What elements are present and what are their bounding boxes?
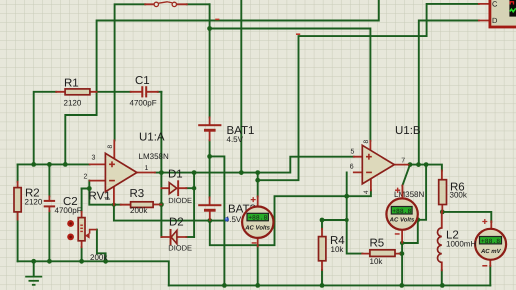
resistor R3 body xyxy=(131,202,154,208)
resistor R1 pin stubs xyxy=(56,91,96,93)
wire rail B bottom xyxy=(169,284,491,286)
node pin2 feedback xyxy=(87,186,92,191)
node C2 bottom on rail A xyxy=(47,259,52,264)
switch SW pin stubs xyxy=(145,3,187,5)
node ground on rail A xyxy=(31,259,36,264)
svg-text:10k: 10k xyxy=(331,245,345,254)
node meter1 bottom on rail B xyxy=(255,283,260,288)
wire switch right to BAT column xyxy=(187,3,210,5)
svg-text:DIODE: DIODE xyxy=(168,244,192,253)
node battery midpoint xyxy=(207,154,212,159)
op-amp U1:B body xyxy=(362,145,394,184)
node scope-C branch on meter1 column xyxy=(255,178,260,183)
svg-text:4: 4 xyxy=(104,196,111,200)
pot RV1 pin stubs xyxy=(81,212,83,247)
node D1 cathode xyxy=(192,186,196,190)
wire pin7 row xyxy=(409,165,442,171)
svg-text:LM358N: LM358N xyxy=(139,152,169,161)
svg-text:10k: 10k xyxy=(370,257,384,266)
node battery column / top row xyxy=(207,26,212,31)
wire meter1 bottom xyxy=(257,246,259,285)
wire long vertical x241 xyxy=(240,0,242,173)
node D1 cathode column on output row xyxy=(192,170,197,175)
svg-text:300k: 300k xyxy=(450,191,468,200)
node R4 branch on pin6 column xyxy=(345,218,349,222)
battery BAT2 plates xyxy=(198,204,221,212)
resistor R3 pin stubs xyxy=(121,204,162,206)
node R4 top xyxy=(320,218,325,223)
node long vertical on output row xyxy=(239,170,244,175)
node R4 bottom on rail B xyxy=(320,283,325,288)
meter2 stub overlay xyxy=(401,187,403,198)
node meter2 hook on pin7 row xyxy=(424,162,429,167)
capacitor C2 plates xyxy=(44,200,55,208)
labels: values xyxy=(25,99,477,267)
wire output row U1:A xyxy=(155,157,354,173)
battery BAT1 plates xyxy=(198,124,221,132)
wire R1 C1 row xyxy=(34,92,162,165)
unconnected red markers xyxy=(215,19,300,35)
resistor R6 body xyxy=(439,180,447,205)
oscilloscope (partial, top right) xyxy=(490,0,516,27)
svg-text:4.5V: 4.5V xyxy=(227,135,244,144)
node RV1 wiper on rail A xyxy=(103,259,108,264)
resistor R4 pin stubs xyxy=(321,229,323,270)
meter2 pin stubs xyxy=(401,186,403,243)
wire row y28.5 to U1:B top pin xyxy=(210,29,371,141)
wire D1 right to vertical xyxy=(186,173,194,237)
node meter1 column on output row xyxy=(255,170,260,175)
pot RV1 body xyxy=(78,218,85,241)
node C2 branch on pin3 rail xyxy=(47,162,52,167)
op-amp U1:B plus minus xyxy=(366,154,372,173)
meter1 pin stubs xyxy=(257,196,259,246)
wire D2 right xyxy=(186,236,194,238)
op-amp U1:B pin stubs: 5,6,8,4,out xyxy=(354,141,409,191)
capacitor C1 pin stubs xyxy=(131,91,158,93)
node BAT2 minus row xyxy=(207,218,212,223)
svg-text:U1:B: U1:B xyxy=(395,125,421,137)
wire ground stem xyxy=(33,261,35,276)
svg-text:8: 8 xyxy=(107,145,114,149)
labels: part references xyxy=(25,75,465,249)
resistor R4 body xyxy=(319,237,326,261)
wire pin6 branch down xyxy=(347,172,363,253)
wire R6 bottom row to meter3 xyxy=(442,212,491,222)
battery BAT1 pin stubs xyxy=(209,117,211,140)
wire bat mid to ground rail xyxy=(210,156,225,285)
resistor R2 body xyxy=(14,188,21,212)
node U1:A pin4 / R3 left xyxy=(112,203,116,207)
diode D1 pin stubs xyxy=(161,187,186,189)
svg-text:200k: 200k xyxy=(130,206,148,215)
node U1:B pin6 column / pin4 row xyxy=(344,194,349,199)
svg-text:6: 6 xyxy=(350,164,354,171)
wire rail A bottom left xyxy=(18,261,169,285)
svg-text:LM358N: LM358N xyxy=(394,190,424,199)
wire R4 bottom xyxy=(321,270,323,285)
svg-text:D1: D1 xyxy=(168,169,183,181)
wire diagonal to meter2 xyxy=(402,165,410,186)
svg-text:4700pF: 4700pF xyxy=(130,99,157,108)
node meter2 bottom / hook return xyxy=(400,241,404,245)
node R5 right / meter2 bottom xyxy=(399,251,404,256)
blue ball marker xyxy=(225,217,229,221)
node R3 right xyxy=(159,202,164,207)
meter1 AC Volts xyxy=(242,197,273,244)
pot RV1 red dots xyxy=(67,220,74,240)
capacitor C1 plates xyxy=(141,86,147,97)
svg-text:4700pF: 4700pF xyxy=(55,206,82,215)
node U1:A output xyxy=(159,170,164,175)
wire R4 top branch xyxy=(322,220,347,229)
svg-text:DIODE: DIODE xyxy=(168,196,192,205)
node R1 branch on pin3 rail xyxy=(31,162,36,167)
svg-text:8: 8 xyxy=(363,140,370,144)
svg-text:+88.8: +88.8 xyxy=(392,208,411,215)
svg-text:+88.8: +88.8 xyxy=(248,215,267,222)
battery BAT2 pin stubs xyxy=(209,197,211,219)
diode D1 xyxy=(169,180,179,196)
wire switch left vertical to U1:A pin8 xyxy=(115,4,146,140)
meter3 pin stubs xyxy=(490,221,491,266)
diode D2 xyxy=(170,229,177,245)
wire R2 branch xyxy=(17,164,19,261)
svg-text:1: 1 xyxy=(145,165,149,172)
svg-text:D2: D2 xyxy=(169,217,184,229)
node R1 loop on pin3 rail xyxy=(63,162,68,167)
wire meter2 bottom xyxy=(401,243,403,286)
svg-text:200k: 200k xyxy=(90,253,108,262)
wire meter3 bottom xyxy=(489,266,491,285)
svg-text:R5: R5 xyxy=(370,237,385,249)
inductor L2 coil xyxy=(437,228,441,262)
op-amp U1:A pin stubs: 3,2,8,4,out xyxy=(90,140,155,204)
svg-text:C1: C1 xyxy=(135,75,150,87)
wire row y20.5 xyxy=(97,0,379,92)
svg-text:4: 4 xyxy=(363,190,370,194)
svg-text:2120: 2120 xyxy=(25,198,43,207)
node RV1 bottom on rail A xyxy=(79,259,84,264)
svg-text:R3: R3 xyxy=(130,188,145,200)
wire pin2 feedback net xyxy=(82,181,121,205)
node meter2 diagonal on pin7 row xyxy=(408,162,413,167)
svg-text:5: 5 xyxy=(351,149,355,156)
wire L2 bottom xyxy=(441,270,443,285)
node meter2 column on rail B xyxy=(399,283,404,288)
wire meter1 top branch xyxy=(257,173,259,197)
wire R1 right loop xyxy=(65,92,96,165)
meter3 AC mV xyxy=(475,219,506,267)
node R6 bottom / L2 top xyxy=(440,210,445,215)
switch contacts xyxy=(154,2,176,7)
capacitor C2 pin stubs xyxy=(48,196,50,211)
svg-text:1000mH: 1000mH xyxy=(446,240,476,249)
wire pin4 down row y220.6 xyxy=(114,205,226,221)
node meter2 right hook xyxy=(415,217,420,222)
pot RV1 wiper arrow xyxy=(85,230,97,239)
svg-text:AC mV: AC mV xyxy=(480,248,502,255)
wire RV1 wiper route xyxy=(97,230,106,262)
wire bat2 bottom to U1:B pin4 row xyxy=(210,190,371,245)
diode D2 pin stubs xyxy=(161,236,186,238)
labels: pin numbers xyxy=(84,0,499,200)
wire C1 right down to output node xyxy=(160,92,162,237)
inductor L2 pin stubs xyxy=(441,212,443,270)
resistor R5 body xyxy=(370,250,395,257)
svg-text:2: 2 xyxy=(84,174,88,181)
wire R5 right to meter2 column xyxy=(400,253,402,255)
svg-text:2120: 2120 xyxy=(64,99,82,108)
node scope-D column on pin7 row xyxy=(416,162,421,167)
svg-text:R1: R1 xyxy=(64,78,79,90)
resistor R1 body xyxy=(65,89,90,95)
op-amp U1:A plus minus xyxy=(109,161,115,180)
meter2 AC Volts xyxy=(386,188,417,235)
op-amp U1:A body xyxy=(105,153,136,191)
ground symbol xyxy=(25,277,42,285)
svg-text:7: 7 xyxy=(401,157,405,164)
wire scope C net xyxy=(258,4,479,180)
wire battery column vertical xyxy=(209,4,211,197)
svg-text:D: D xyxy=(492,16,498,25)
svg-text:AC Volts: AC Volts xyxy=(389,217,415,224)
svg-text:3: 3 xyxy=(92,155,96,162)
svg-text:U1:A: U1:A xyxy=(139,132,165,144)
node battery-mid column on rail B xyxy=(222,283,227,288)
svg-text:+88.8: +88.8 xyxy=(481,238,500,245)
wire pin3 rail y164 xyxy=(18,163,90,165)
wire scope D net xyxy=(419,21,479,165)
node L2 bottom on rail B xyxy=(440,283,445,288)
scope pin stubs C and D xyxy=(479,4,489,21)
svg-text:C: C xyxy=(492,0,498,9)
resistor R2 pin stubs xyxy=(17,182,19,220)
wire C2 branch xyxy=(48,164,50,261)
svg-text:AC Volts: AC Volts xyxy=(244,225,270,232)
resistor R6 pin stubs xyxy=(441,171,443,212)
resistor R5 pin stubs xyxy=(362,253,399,255)
wire RV1 top and bottom xyxy=(81,189,83,262)
